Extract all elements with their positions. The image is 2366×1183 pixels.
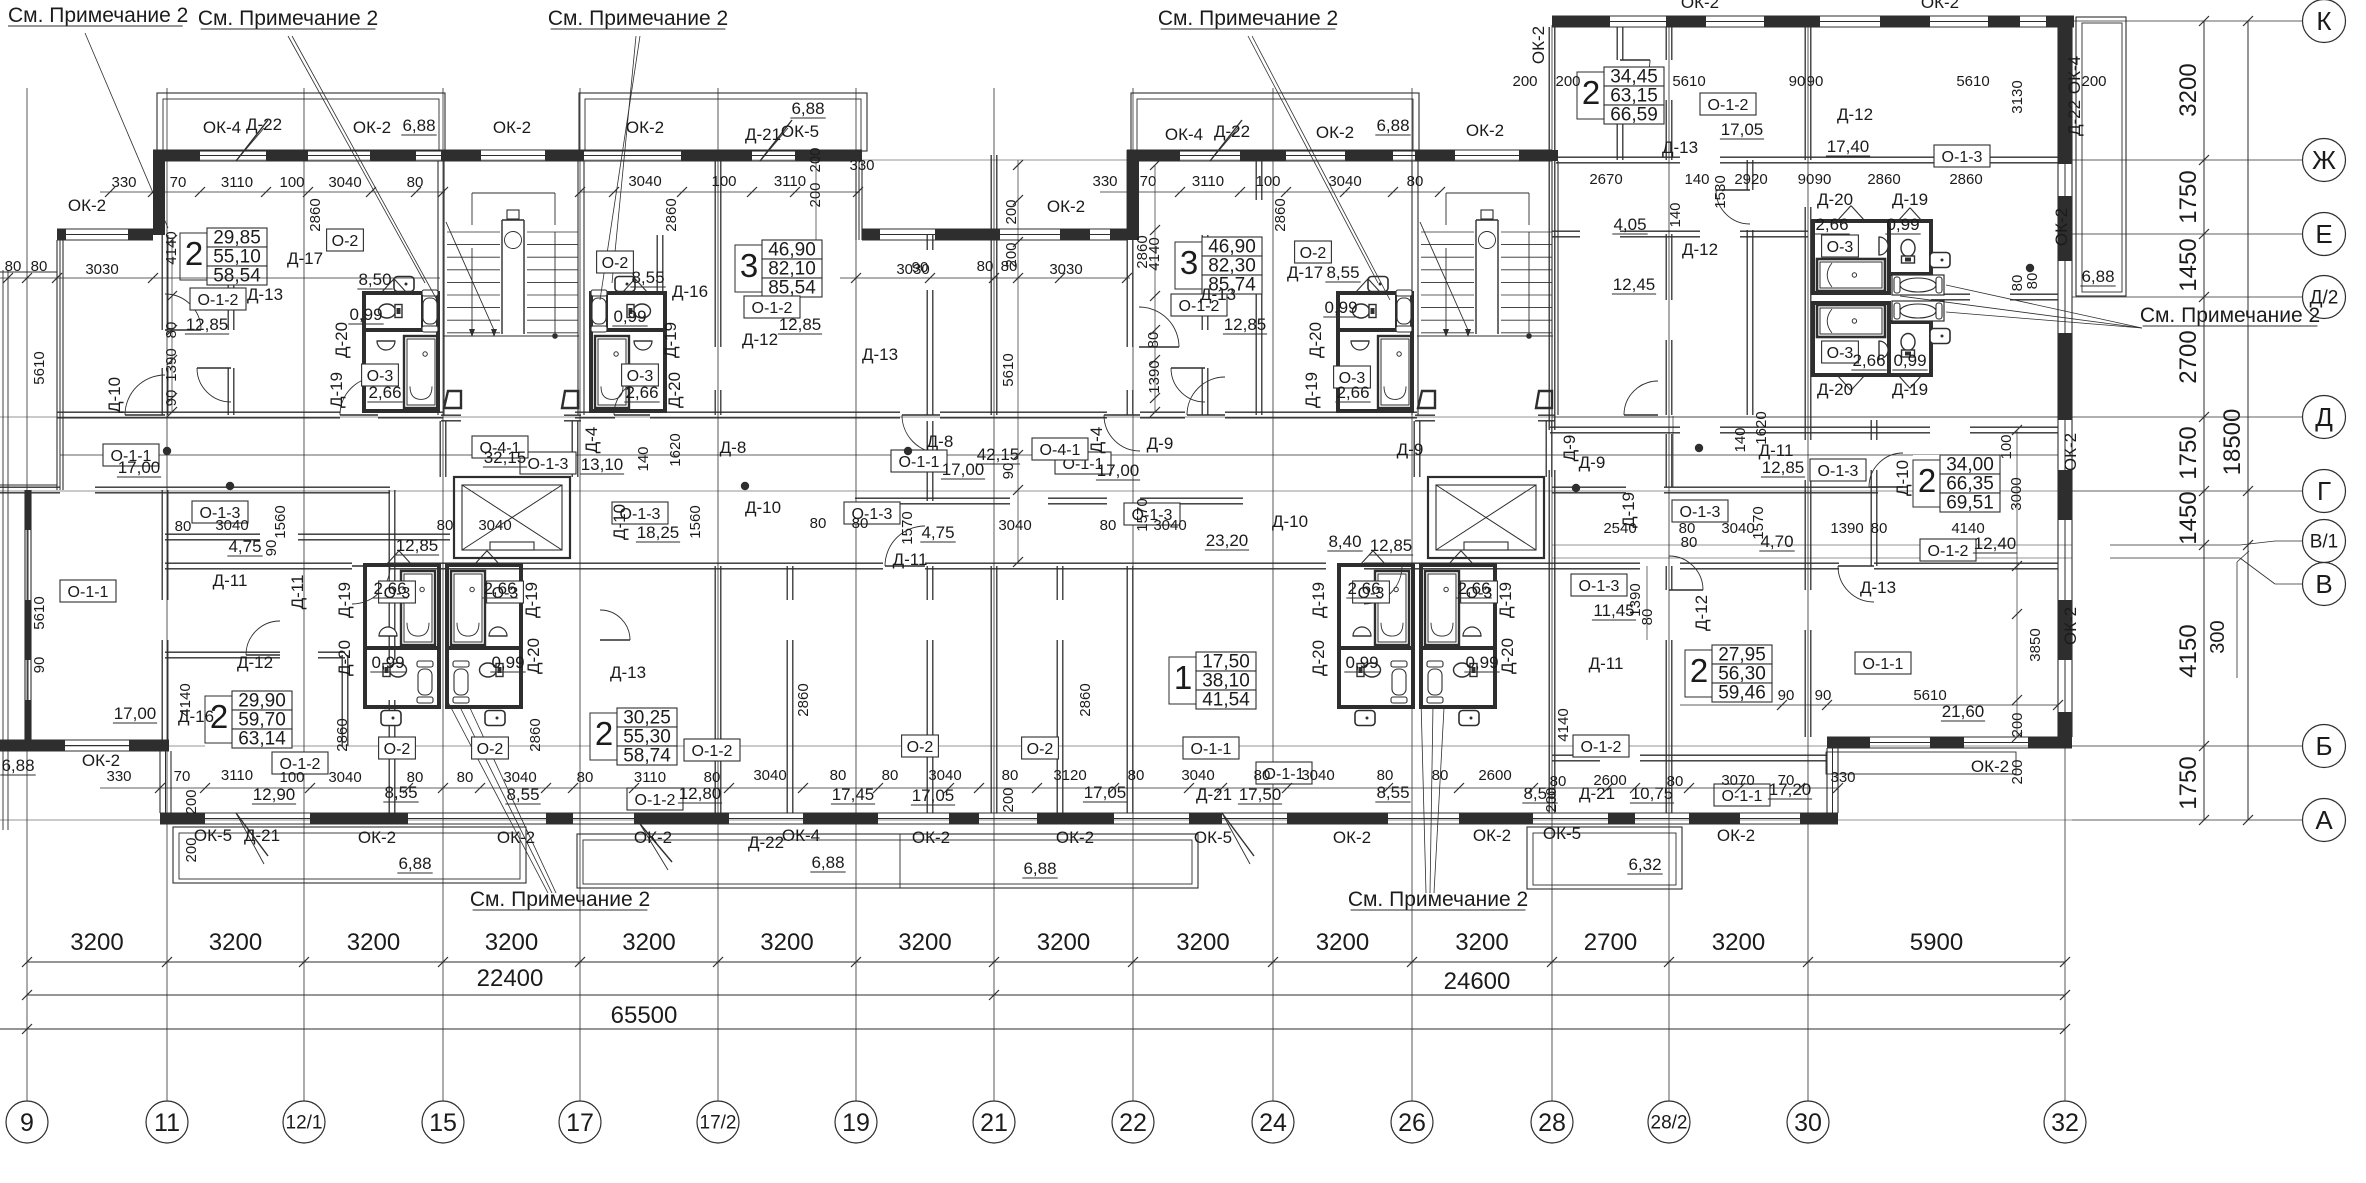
area 6,88 (1022, 859, 1057, 878)
stairwell 2 left shaft wall (1411, 161, 1413, 415)
axis circle 24 (1252, 1101, 1294, 1143)
svg-text:55,30: 55,30 (623, 727, 671, 748)
room label О-1-2 (744, 296, 800, 318)
svg-text:Д-13: Д-13 (1860, 578, 1896, 597)
leader (288, 36, 425, 283)
axis circle 28/2 (1648, 1101, 1690, 1143)
axis В thin (1552, 557, 2072, 559)
svg-text:12,85: 12,85 (1762, 458, 1805, 477)
svg-text:3200: 3200 (70, 929, 123, 956)
bath cluster pair (axis 15 bottom) left bath room (365, 565, 439, 648)
svg-text:29,85: 29,85 (213, 228, 261, 249)
svg-text:65500: 65500 (611, 1002, 678, 1029)
leader (1946, 312, 2142, 328)
svg-text:90: 90 (1815, 687, 1832, 704)
bath cluster right section upper bath room (1813, 221, 1889, 293)
svg-text:5610: 5610 (1672, 73, 1705, 90)
stairwell 1 bottom landing (443, 335, 579, 337)
area value 8,50 (357, 270, 392, 289)
svg-text:30,25: 30,25 (623, 708, 671, 729)
svg-text:ОК-2: ОК-2 (497, 828, 535, 847)
bath cluster pair (axis 26 bottom) bathtub (1375, 571, 1409, 645)
door Д-11 (1364, 566, 1402, 604)
svg-text:1750: 1750 (2175, 756, 2202, 809)
room label О-1-3 (1124, 503, 1180, 525)
door Д-12 right (1669, 556, 1703, 590)
svg-text:2,66: 2,66 (625, 383, 658, 402)
svg-text:4140: 4140 (163, 231, 180, 264)
exterior wall right (axis 32) (2057, 21, 2059, 737)
loggia below bottom-right wall (1826, 752, 2016, 774)
svg-text:38,10: 38,10 (1202, 671, 1250, 692)
svg-text:8,55: 8,55 (631, 268, 664, 287)
svg-text:Д-20: Д-20 (335, 640, 354, 676)
room label О-4-1 (1032, 438, 1088, 460)
grid axis 11 (166, 88, 168, 1101)
room label О-1-2 (1920, 539, 1976, 561)
area value 12,90 (252, 785, 296, 804)
svg-text:ОК-2: ОК-2 (1473, 826, 1511, 845)
wall y430 right section (1550, 426, 1680, 428)
bath cluster pair (axis 15 bottom) left toilet room (365, 648, 439, 707)
area value 8,55 (383, 783, 418, 802)
svg-text:70: 70 (1778, 772, 1795, 789)
area value 12,80 (678, 784, 722, 803)
svg-text:1560: 1560 (687, 505, 704, 538)
svg-text:Д-13: Д-13 (1200, 285, 1236, 304)
stairwell 1 left shaft wall (437, 161, 439, 415)
svg-text:1750: 1750 (2175, 170, 2202, 223)
bath cluster A (axis 15 top) bathtub (404, 336, 438, 408)
bath cluster pair (axis 26 bottom) right toilet room (1421, 648, 1495, 707)
area value 32,15 (483, 448, 527, 467)
dim col x816 (815, 150, 817, 240)
svg-text:0,99: 0,99 (371, 653, 404, 672)
vestibule wall x443 (439, 421, 441, 477)
axis circle Е (2303, 213, 2346, 256)
step wall x165 (159, 751, 161, 813)
room label О-1-2 (190, 288, 246, 310)
room label О-1-1 (891, 450, 947, 472)
svg-text:330: 330 (106, 768, 131, 785)
svg-text:О-1-1: О-1-1 (1863, 656, 1904, 673)
svg-text:4140: 4140 (1951, 520, 1984, 537)
area value 4,75 (227, 537, 262, 556)
area 6,88 (0, 756, 35, 775)
svg-text:Д-8: Д-8 (720, 438, 747, 457)
svg-text:200: 200 (2081, 73, 2106, 90)
axis line Ж (2072, 159, 2302, 161)
axis circle 32 (2044, 1101, 2086, 1143)
corridor wall bottom east (1552, 562, 1640, 564)
bath cluster right section lower bathtub (1817, 305, 1885, 337)
axis circle В (2303, 563, 2346, 606)
bath cluster C (axis 26 top) bathtub (1378, 336, 1412, 408)
door Д-12 tower (1716, 190, 1750, 224)
bath cluster pair (axis 26 bottom) washer (1459, 711, 1479, 726)
svg-text:ОК-2: ОК-2 (1056, 828, 1094, 847)
svg-text:9: 9 (20, 1109, 34, 1137)
area 6,88 (790, 99, 825, 118)
svg-text:Д-19: Д-19 (327, 372, 346, 408)
axis circle 22 (1112, 1101, 1154, 1143)
svg-text:80: 80 (577, 769, 594, 786)
svg-text:32: 32 (2051, 1109, 2079, 1137)
svg-text:Д-20: Д-20 (332, 322, 351, 358)
axis circle Д (2303, 396, 2346, 439)
svg-text:Д-20: Д-20 (665, 372, 684, 408)
svg-text:80: 80 (31, 258, 48, 275)
axis Г thin (0, 490, 2072, 492)
bath cluster A (axis 15 top) bath room (364, 330, 438, 411)
elevator 1 (454, 477, 570, 558)
svg-text:3040: 3040 (998, 517, 1031, 534)
bath cluster C (axis 26 top) toilet (1353, 304, 1377, 318)
room label О-1-2 (684, 739, 740, 761)
axis line А (2072, 819, 2302, 821)
bath cluster right section upper toilet room (1889, 221, 1931, 274)
svg-text:О-3: О-3 (1827, 345, 1854, 362)
area value 2,66 (482, 579, 517, 598)
area value 12,85 (778, 315, 822, 334)
svg-text:Д-13: Д-13 (1662, 138, 1698, 157)
svg-text:1560: 1560 (272, 505, 289, 538)
svg-text:ОК-5: ОК-5 (1543, 824, 1581, 843)
door Д-13 right (1838, 566, 1874, 602)
bath cluster pair (axis 26 bottom) left bath room (1339, 565, 1413, 648)
axis line К (2072, 20, 2302, 22)
room label О-1-1 (103, 444, 159, 466)
axis Б thin (0, 745, 2072, 747)
svg-text:80: 80 (1432, 767, 1449, 784)
svg-text:80: 80 (1145, 332, 1162, 349)
pier left corner x153 (153, 161, 165, 235)
svg-text:4,05: 4,05 (1613, 215, 1646, 234)
room label О-1-3 (612, 502, 668, 524)
stairwell 2 corner blocks (1418, 391, 1435, 408)
bath cluster C (axis 26 top) sink (1351, 341, 1369, 350)
area value 42,15 (976, 445, 1020, 464)
svg-text:28: 28 (1538, 1109, 1566, 1137)
corridor wall bottom (165, 562, 352, 564)
svg-text:ОК-2: ОК-2 (1466, 121, 1504, 140)
grid axis 30 (1807, 25, 1809, 1101)
grid axis 17 (579, 88, 581, 1101)
axis circle Б (2303, 725, 2346, 768)
svg-text:140: 140 (1667, 202, 1684, 227)
wall x165 lower (161, 490, 163, 600)
svg-text:18500: 18500 (2219, 409, 2246, 476)
svg-text:100: 100 (1998, 434, 2015, 459)
room label О-1-3 (1672, 500, 1728, 522)
svg-text:ОК-2: ОК-2 (358, 828, 396, 847)
svg-text:8,50: 8,50 (358, 270, 391, 289)
svg-text:12,80: 12,80 (679, 784, 722, 803)
room label О-3 (1334, 366, 1371, 388)
bath cluster A (axis 15 top) toilet room (364, 293, 438, 330)
area value 0,99 (1344, 653, 1379, 672)
svg-text:80: 80 (1639, 609, 1656, 626)
svg-text:12,85: 12,85 (186, 315, 229, 334)
svg-text:0,99: 0,99 (1465, 653, 1498, 672)
axis В/1 thin (1552, 544, 2072, 546)
door Д-13 (1139, 307, 1179, 347)
pier x1127 step (1127, 150, 1139, 240)
svg-text:200: 200 (183, 789, 200, 814)
svg-text:200: 200 (2009, 712, 2026, 737)
area value 0,99 (1892, 351, 1927, 370)
stairwell 2 upper landing (1446, 192, 1529, 194)
svg-text:2860: 2860 (663, 198, 680, 231)
axis line Е (2072, 233, 2302, 235)
room label О-1-3 (520, 452, 576, 474)
area table apt 3 (46,90) (735, 240, 822, 299)
wall x1205 (1201, 235, 1203, 330)
svg-text:6,88: 6,88 (1376, 116, 1409, 135)
wall x930 upper (926, 235, 928, 250)
area 6,88 (401, 116, 436, 135)
area table apt 2 (27,95) (1685, 645, 1772, 704)
step wall x1827 (1826, 748, 1828, 813)
room label О-4-1 (472, 436, 528, 458)
bath cluster right section washer (1930, 253, 1950, 268)
area value 17,45 (831, 785, 875, 804)
svg-text:140: 140 (1732, 427, 1749, 452)
svg-text:ОК-2: ОК-2 (912, 828, 950, 847)
svg-text:ОК-2: ОК-2 (1971, 757, 2009, 776)
svg-text:Е: Е (2315, 219, 2332, 249)
svg-text:6,88: 6,88 (1, 756, 34, 775)
svg-text:Г: Г (2317, 476, 2331, 506)
axis Д thin east (1552, 416, 2058, 418)
svg-text:О-1-3: О-1-3 (1680, 504, 1721, 521)
svg-text:330: 330 (849, 157, 874, 174)
axis circle В/1 (2303, 520, 2346, 563)
svg-text:90: 90 (31, 657, 48, 674)
note text right (2140, 304, 2320, 327)
svg-text:О-4-1: О-4-1 (1040, 442, 1081, 459)
stairwell 2 bottom landing (1417, 335, 1553, 337)
svg-text:К: К (2316, 6, 2331, 36)
svg-text:Д-10: Д-10 (105, 377, 124, 413)
leader (459, 705, 552, 893)
bath cluster pair (axis 26 bottom) left toilet room (1339, 648, 1413, 707)
svg-text:1390: 1390 (163, 348, 180, 381)
axis circle 28 (1531, 1101, 1573, 1143)
bath cluster A (axis 15 top) niche (421, 293, 423, 330)
wall x1669 top (1665, 27, 1667, 60)
svg-text:70: 70 (170, 174, 187, 191)
svg-text:80: 80 (810, 515, 827, 532)
svg-text:29,90: 29,90 (238, 691, 286, 712)
balcony door leaf (236, 120, 268, 161)
dim ticks row y788 (155, 783, 165, 793)
grid axis 12/1 (303, 88, 305, 1101)
area value 17,40 (1826, 137, 1870, 156)
door Д-12 (197, 368, 231, 402)
area table apt 2 (34,00) (1913, 455, 2000, 514)
door small (600, 610, 630, 640)
svg-text:1570: 1570 (899, 511, 916, 544)
wall x1669 mid (1665, 434, 1667, 487)
svg-text:3200: 3200 (760, 929, 813, 956)
svg-text:24600: 24600 (1444, 968, 1511, 995)
svg-text:Д-13: Д-13 (247, 285, 283, 304)
area value 12,85 (185, 315, 229, 334)
bath cluster B (axis 17 top) niche (606, 293, 608, 330)
wall x1259 (1255, 161, 1257, 200)
svg-text:Д-22: Д-22 (748, 833, 784, 852)
area value 8,40 (1327, 532, 1362, 551)
svg-text:80: 80 (1871, 520, 1888, 537)
door Д-12 (1171, 368, 1205, 402)
svg-text:80: 80 (1100, 517, 1117, 534)
svg-text:5610: 5610 (1913, 687, 1946, 704)
section wall x1552 (1548, 27, 1550, 430)
svg-text:О-1-2: О-1-2 (198, 292, 239, 309)
svg-text:1450: 1450 (2175, 238, 2202, 291)
bath cluster C (axis 26 top) bath room (1338, 330, 1412, 411)
svg-text:Д: Д (2315, 402, 2333, 432)
bath cluster A (axis 15 top) washer (394, 277, 414, 292)
door Д-10 (1104, 415, 1140, 451)
axis circle 11 (146, 1101, 188, 1143)
area value 2,66 (1851, 351, 1886, 370)
svg-text:ОК-2: ОК-2 (1333, 828, 1371, 847)
bath cluster B (axis 17 top) bath room (591, 330, 665, 411)
svg-text:17,00: 17,00 (1097, 461, 1140, 480)
wall y537 west (165, 533, 260, 535)
wall x1130 lower (1126, 566, 1128, 813)
svg-text:58,74: 58,74 (623, 746, 671, 767)
room label О-3 (1353, 581, 1390, 603)
bath cluster pair (axis 26 bottom) right bath room (1421, 565, 1495, 648)
area table apt 2 (34,45) (1577, 67, 1664, 126)
svg-text:3: 3 (1180, 244, 1198, 281)
vestibule wall x1417 (1413, 421, 1415, 477)
svg-text:15: 15 (429, 1109, 457, 1137)
wall x1620 (1616, 27, 1618, 60)
stairwell 1 corner blocks (444, 391, 461, 408)
svg-text:2: 2 (1918, 462, 1936, 499)
svg-text:Д-20: Д-20 (1498, 638, 1517, 674)
svg-text:Д-11: Д-11 (1589, 654, 1624, 673)
svg-text:О-2: О-2 (602, 255, 629, 272)
svg-text:О-1-2: О-1-2 (1581, 739, 1622, 756)
svg-text:4140: 4140 (177, 683, 194, 716)
svg-text:ОК-2: ОК-2 (353, 118, 391, 137)
room label О-3 (362, 364, 399, 386)
wall x1808 mid (1804, 207, 1806, 430)
bath cluster right section lower appliance (1892, 301, 1944, 321)
svg-text:200: 200 (1000, 787, 1017, 812)
room label О-1-1 (1855, 652, 1911, 674)
room label О-1-3 (844, 502, 900, 524)
stairwell 2 central stringer (1475, 220, 1477, 334)
area value 2,66 (1346, 579, 1381, 598)
svg-text:82,30: 82,30 (1208, 256, 1256, 277)
svg-text:59,70: 59,70 (238, 710, 286, 731)
dim col x1673 (1672, 416, 1674, 487)
door Д-10 right (1869, 453, 1903, 487)
svg-text:19: 19 (842, 1109, 870, 1137)
svg-text:Ж: Ж (2312, 145, 2336, 175)
area value 12,85 (1761, 458, 1805, 477)
room label О-1-3 (192, 501, 248, 523)
note text bottom 2 (1348, 888, 1528, 911)
axis circle Ж (2303, 139, 2346, 182)
bath cluster B (axis 17 top) doors (622, 279, 635, 293)
grid axis 28 (1551, 25, 1553, 1101)
svg-text:21: 21 (980, 1109, 1008, 1137)
svg-text:См. Примечание 2: См. Примечание 2 (2140, 304, 2320, 327)
svg-text:12,85: 12,85 (1370, 536, 1413, 555)
area value 17,05 (1720, 120, 1764, 139)
axis line В/1 (2110, 544, 2240, 546)
room label О-3 (487, 581, 524, 603)
svg-text:2: 2 (185, 235, 203, 272)
svg-text:3040: 3040 (628, 173, 661, 190)
svg-text:2540: 2540 (1603, 520, 1636, 537)
bath cluster B (axis 17 top) sink (634, 341, 652, 350)
svg-text:ОК-2: ОК-2 (493, 118, 531, 137)
area value 8,55 (1375, 783, 1410, 802)
svg-text:2700: 2700 (1584, 929, 1637, 956)
axis circle 21 (973, 1101, 1015, 1143)
svg-text:5610: 5610 (31, 351, 48, 384)
area value 12,85 (395, 536, 439, 555)
wall y655 (165, 651, 280, 653)
svg-text:70: 70 (1140, 173, 1157, 190)
svg-text:ОК-4: ОК-4 (782, 826, 820, 845)
room label О-2 (327, 229, 364, 251)
svg-text:ОК-2: ОК-2 (1681, 0, 1719, 12)
bath cluster pair (axis 15 bottom) heater (418, 669, 432, 695)
svg-text:70: 70 (174, 768, 191, 785)
leader (470, 708, 556, 893)
svg-text:80: 80 (1550, 773, 1567, 790)
svg-text:1620: 1620 (1753, 411, 1770, 444)
note text 3 (548, 7, 728, 30)
area value 17,00 (1096, 461, 1140, 480)
svg-text:80: 80 (1407, 173, 1424, 190)
svg-text:Д-12: Д-12 (1682, 240, 1718, 259)
svg-text:2: 2 (1690, 652, 1708, 689)
svg-text:Д-11: Д-11 (288, 575, 307, 610)
dim col x1018 (1017, 160, 1019, 562)
svg-text:О-1-2: О-1-2 (692, 743, 733, 760)
svg-text:ОК-4: ОК-4 (203, 118, 241, 137)
area value 4,75 (920, 523, 955, 542)
svg-text:Д-12: Д-12 (237, 653, 273, 672)
bath cluster pair (axis 15 bottom) sink (489, 627, 507, 636)
elevator 2 (1428, 477, 1544, 558)
svg-text:2,66: 2,66 (373, 579, 406, 598)
svg-text:3200: 3200 (347, 929, 400, 956)
svg-text:80: 80 (1128, 767, 1145, 784)
svg-text:Д-9: Д-9 (1397, 440, 1424, 459)
svg-text:Д-19: Д-19 (335, 582, 354, 618)
svg-text:0,99: 0,99 (1893, 351, 1926, 370)
room label О-3 (1461, 581, 1498, 603)
svg-text:Д-4: Д-4 (1087, 427, 1106, 454)
svg-text:80: 80 (977, 258, 994, 275)
svg-text:Д-20: Д-20 (524, 638, 543, 674)
svg-text:4150: 4150 (2175, 624, 2202, 677)
svg-text:Д-10: Д-10 (1272, 512, 1308, 531)
leader (1434, 708, 1444, 893)
room label О-1-2 (1171, 294, 1227, 316)
